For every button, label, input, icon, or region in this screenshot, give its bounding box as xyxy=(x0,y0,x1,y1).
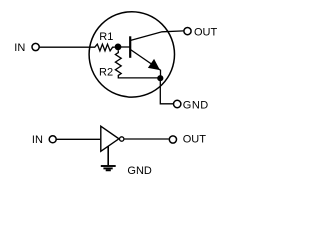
svg-text:GND: GND xyxy=(183,99,209,111)
svg-text:OUT: OUT xyxy=(183,133,207,145)
wire inverter to OUT xyxy=(124,138,168,140)
wire emitter node to GND terminal xyxy=(160,78,173,104)
wire inverter ground stem xyxy=(107,146,109,165)
inverter U1 output bubble xyxy=(120,137,124,141)
resistor R1 xyxy=(95,44,115,51)
svg-text:OUT: OUT xyxy=(194,27,218,39)
transistor Q1 collector wire to OUT xyxy=(130,31,183,41)
resistor R2 xyxy=(115,50,160,78)
wire IN to inverter U1 xyxy=(56,138,100,140)
svg-text:R2: R2 xyxy=(99,66,113,78)
wire IN to R1 xyxy=(39,46,95,48)
transistor Q1 emitter arrow xyxy=(149,60,159,69)
terminal GND (top circuit) xyxy=(174,100,181,107)
transistor envelope circle xyxy=(89,12,174,97)
svg-text:IN: IN xyxy=(14,42,25,54)
junction dot base node xyxy=(115,44,122,51)
ground symbol xyxy=(101,166,116,170)
junction dot emitter node xyxy=(157,75,163,81)
terminal OUT (top circuit) xyxy=(184,28,191,35)
transistor Q1 emitter wire xyxy=(130,49,160,78)
svg-text:GND: GND xyxy=(127,165,151,177)
inverter U1 triangle xyxy=(101,126,119,151)
wire base node to Q1 base xyxy=(118,46,130,48)
svg-text:IN: IN xyxy=(32,134,43,146)
terminal IN (bottom circuit) xyxy=(49,136,56,143)
terminal IN (top circuit) xyxy=(32,43,39,50)
svg-text:R1: R1 xyxy=(99,31,113,43)
transistor Q1 base bar xyxy=(129,36,131,58)
terminal OUT (bottom circuit) xyxy=(169,136,176,143)
